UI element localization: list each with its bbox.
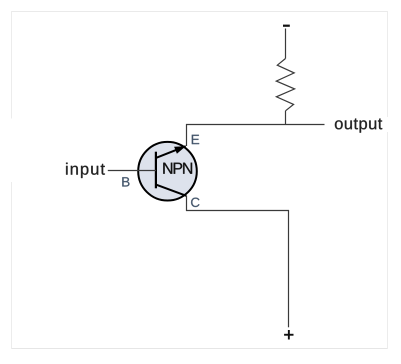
transistor Q1 (NPN) body — [138, 142, 197, 201]
wire: emitter vertical (rail down to transistor E) — [186, 124, 188, 146]
wire: horizontal to positive rail — [186, 210, 289, 212]
pin label E — [192, 135, 199, 144]
wire: input to base — [108, 170, 156, 172]
resistor R1 — [276, 59, 294, 111]
wire: resistor bottom to output rail — [285, 111, 287, 125]
transistor emitter line with arrow — [156, 146, 186, 158]
transistor collector line — [156, 185, 186, 196]
wire: horizontal output rail — [186, 124, 325, 126]
label: NPN — [163, 163, 192, 174]
wire: collector vertical (transistor C down) — [186, 196, 188, 211]
positive supply terminal (+) — [284, 330, 293, 340]
label: input — [66, 163, 105, 178]
transistor base bar — [155, 152, 157, 189]
wire: negative terminal to resistor top — [285, 29, 287, 59]
pin label C — [191, 198, 199, 207]
negative supply terminal (-) — [283, 25, 290, 27]
label: output — [335, 119, 382, 133]
pin label B — [122, 177, 129, 186]
wire: vertical down to positive terminal — [288, 210, 290, 327]
